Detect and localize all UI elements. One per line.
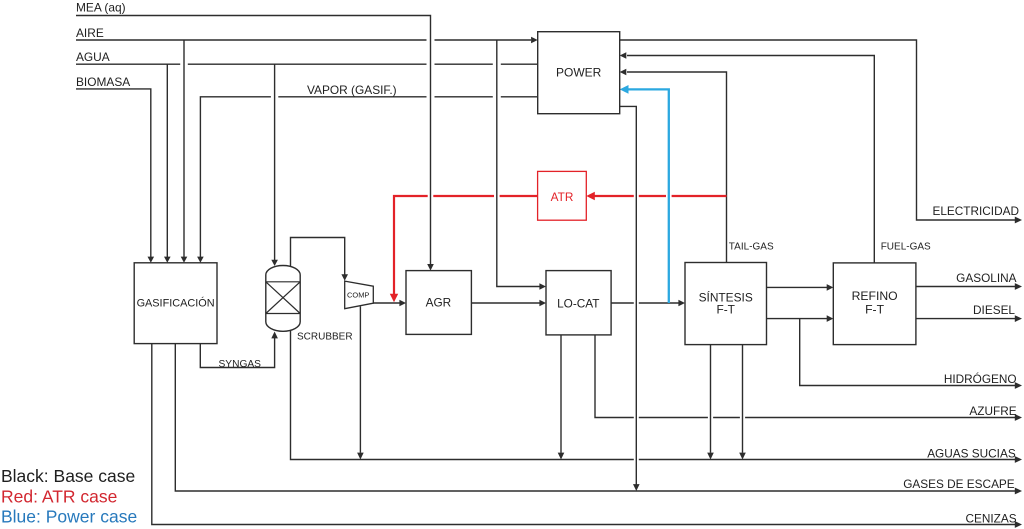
arrowheads black xyxy=(148,37,1023,528)
arrow into REFINO top line xyxy=(827,284,834,291)
arrow POWER exhaust onto line xyxy=(633,484,640,491)
arrow into compressor top xyxy=(341,274,348,281)
compressor COMP xyxy=(345,281,374,309)
arrow into gasifier AIRE xyxy=(181,257,188,263)
arrow into LO-CAT left (main) xyxy=(539,300,546,307)
product labels right xyxy=(903,204,1019,526)
svg-text:Black: Base case: Black: Base case xyxy=(1,466,135,486)
arrow blue into POWER right xyxy=(620,85,629,94)
wire SYNGAS gasifier to scrubber xyxy=(200,338,274,368)
wire AIRE branch to LO-CAT xyxy=(497,40,540,287)
wire HIDROGENO branch xyxy=(800,319,1015,386)
arrow into AGR left xyxy=(399,300,406,307)
svg-text:MEA (aq): MEA (aq) xyxy=(76,1,126,15)
wire red ATR to syngas line xyxy=(394,196,538,295)
svg-text:DIESEL: DIESEL xyxy=(973,303,1015,317)
svg-text:SCRUBBER: SCRUBBER xyxy=(297,331,353,342)
svg-text:SYNGAS: SYNGAS xyxy=(219,359,262,370)
wire AGUA feed line xyxy=(76,63,538,65)
wire GASOLINA xyxy=(916,286,1015,288)
box AGR xyxy=(406,271,471,335)
arrow compressor drain onto line xyxy=(357,453,364,460)
box GASIFICACION xyxy=(134,263,217,344)
svg-text:GASIFICACIÓN: GASIFICACIÓN xyxy=(137,297,215,310)
svg-text:F-T: F-T xyxy=(865,302,885,316)
legend xyxy=(1,466,137,527)
svg-text:BIOMASA: BIOMASA xyxy=(76,75,130,89)
svg-text:REFINO: REFINO xyxy=(852,289,898,303)
box SINTESIS F-T xyxy=(685,263,767,345)
wire red tail-gas to ATR xyxy=(594,195,727,197)
wire gasifier to GASES DE ESCAPE xyxy=(175,344,1015,491)
svg-text:LO-CAT: LO-CAT xyxy=(557,297,599,311)
wire compressor to AGR xyxy=(373,302,400,304)
wire AIRE feed line xyxy=(76,39,531,41)
wire AGUA branch to scrubber xyxy=(274,64,276,260)
svg-text:ELECTRICIDAD: ELECTRICIDAD xyxy=(932,204,1019,218)
svg-text:HIDRÓGENO: HIDRÓGENO xyxy=(944,372,1017,386)
arrow CENIZAS xyxy=(1015,521,1022,528)
arrow into POWER right (FUEL-GAS) xyxy=(620,52,627,59)
svg-text:AZUFRE: AZUFRE xyxy=(969,404,1016,418)
wire gasifier to CENIZAS xyxy=(152,344,1015,525)
box REFINO F-T xyxy=(833,263,916,345)
box ATR (red) xyxy=(538,171,587,220)
wire DIESEL xyxy=(916,318,1015,320)
wire scrubber drain to AGUAS SUCIAS xyxy=(291,329,1016,460)
wire TAIL-GAS to POWER xyxy=(627,72,727,263)
arrow into scrubber bottom (syngas) xyxy=(271,332,278,339)
wire LO-CAT to AGUAS SUCIAS xyxy=(560,335,562,453)
arrow GASOLINA xyxy=(1015,283,1022,290)
arrow into AGR top (MEA) xyxy=(427,264,434,271)
scrubber vessel xyxy=(266,266,353,343)
svg-text:AGR: AGR xyxy=(426,296,452,310)
wire SINTESIS to REFINO top xyxy=(767,286,828,288)
arrow GASES DE ESCAPE xyxy=(1015,488,1022,495)
svg-text:F-T: F-T xyxy=(716,302,735,316)
wire LO-CAT to SINTESIS xyxy=(611,302,678,304)
arrow AGUAS SUCIAS xyxy=(1015,456,1022,463)
arrow into POWER right (TAIL-GAS) xyxy=(620,69,627,76)
svg-text:POWER: POWER xyxy=(556,65,602,79)
arrow LO-CAT drain onto line xyxy=(558,453,565,460)
feed labels left xyxy=(76,1,397,98)
arrow into LO-CAT left (air) xyxy=(539,283,546,290)
wire AIRE branch to gasifier xyxy=(183,40,185,257)
svg-text:VAPOR (GASIF.): VAPOR (GASIF.) xyxy=(307,83,397,97)
wire AGUA branch to gasifier xyxy=(166,64,168,257)
svg-text:AGUAS SUCIAS: AGUAS SUCIAS xyxy=(927,447,1016,461)
arrow AZUFRE xyxy=(1015,414,1022,421)
svg-text:GASES DE ESCAPE: GASES DE ESCAPE xyxy=(903,477,1015,491)
wire POWER to ELECTRICIDAD xyxy=(620,40,1015,220)
wire SINTESIS to REFINO bottom xyxy=(767,318,828,320)
svg-text:AGUA: AGUA xyxy=(76,50,110,64)
svg-text:GASOLINA: GASOLINA xyxy=(956,271,1016,285)
wire FUEL-GAS to POWER xyxy=(627,56,874,263)
svg-text:ATR: ATR xyxy=(551,190,574,204)
arrow HIDROGENO xyxy=(1015,382,1022,389)
svg-text:AIRE: AIRE xyxy=(76,26,104,40)
wire POWER exhaust to GASES DE ESCAPE xyxy=(620,106,637,484)
arrow into gasifier VAPOR xyxy=(197,257,204,263)
arrow into gasifier AGUA xyxy=(164,257,171,263)
arrow SINTESIS drain 1 xyxy=(707,453,714,460)
arrow into gasifier BIOMASA xyxy=(148,257,155,263)
arrow DIESEL xyxy=(1015,315,1022,322)
arrow ELECTRICIDAD xyxy=(1015,217,1022,224)
svg-text:Red: ATR case: Red: ATR case xyxy=(1,486,117,506)
svg-text:Blue: Power case: Blue: Power case xyxy=(1,506,137,526)
wire MEA feed line xyxy=(76,16,431,265)
arrow into SINTESIS left xyxy=(678,300,685,307)
arrow SINTESIS drain 2 xyxy=(739,453,746,460)
box POWER xyxy=(538,32,620,114)
arrow red onto syngas line xyxy=(390,294,398,303)
svg-text:TAIL-GAS: TAIL-GAS xyxy=(729,242,774,253)
wire LO-CAT to AZUFRE xyxy=(595,335,1015,418)
arrow into scrubber top xyxy=(271,260,278,266)
svg-text:CENIZAS: CENIZAS xyxy=(965,511,1016,525)
wire compressor drain xyxy=(359,306,361,453)
box LO-CAT xyxy=(546,271,611,335)
red ATR-case wires xyxy=(394,196,727,295)
arrow into POWER left (AIRE) xyxy=(531,37,538,44)
wire VAPOR line from POWER to gasifier xyxy=(200,97,537,257)
arrow red into ATR right xyxy=(586,192,595,200)
svg-text:COMP: COMP xyxy=(347,291,370,300)
svg-text:FUEL-GAS: FUEL-GAS xyxy=(881,242,931,253)
wire BIOMASA feed line xyxy=(76,89,151,257)
wire SINTESIS bottoms to AGUAS SUCIAS xyxy=(711,345,743,453)
arrow into REFINO bottom line xyxy=(827,315,834,322)
wire scrubber overhead to compressor xyxy=(291,238,345,275)
wire blue from main line to POWER xyxy=(628,89,669,303)
wire AGR to LO-CAT xyxy=(471,302,539,304)
blue Power-case wire xyxy=(628,89,669,303)
